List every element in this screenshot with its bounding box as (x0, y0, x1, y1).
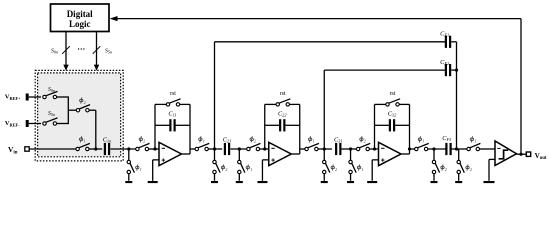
svg-text:2: 2 (470, 167, 472, 172)
node B2 (349, 147, 352, 150)
ground (367, 181, 377, 183)
wire U1 output (181, 153, 190, 155)
capacitor CF1 (440, 30, 451, 48)
wire CF2 rail (324, 69, 446, 71)
wire to node A1 (208, 148, 222, 150)
node stage1 input (153, 147, 156, 150)
node A2 (323, 147, 326, 150)
control line S0n (51, 32, 70, 71)
switch phi2 shunt at node A2 (323, 149, 338, 181)
node Q (127, 147, 130, 150)
node B3 (455, 147, 458, 150)
wire to comparator input (480, 148, 496, 150)
capacitor C31 (334, 137, 343, 156)
wire to U1 inverting input (149, 148, 160, 150)
switch phi1 (stage 3 output) (415, 136, 429, 151)
node P (94, 147, 97, 150)
op-amp U3 (379, 142, 402, 165)
node stage3 input (373, 147, 376, 150)
op-amp U1 (159, 142, 182, 165)
wire CF2 to vertical (451, 69, 456, 71)
switch phi2 shunt at node B3 (457, 149, 472, 181)
capacitor CF2 (440, 59, 451, 76)
wire CF vertical down to node B3 (456, 42, 458, 149)
switch phi1 (input sampling) (76, 136, 90, 151)
switch phi2 (to opamp U3) (356, 136, 370, 151)
wire comparator output (516, 153, 526, 155)
ground (257, 181, 267, 183)
wire mux tap (68, 109, 76, 111)
svg-text:1: 1 (422, 139, 424, 144)
ground (455, 181, 462, 183)
ground (431, 181, 438, 183)
wire cap to node Q (110, 148, 135, 150)
wire stage3 feedback left (374, 104, 376, 149)
switch phi2 (reference feed) (76, 97, 90, 112)
svg-text:Logic: Logic (69, 19, 91, 29)
capacitor CF3 (442, 135, 452, 155)
node A3 (432, 147, 435, 150)
svg-text:2: 2 (84, 100, 86, 105)
wire to node A2 (318, 148, 332, 150)
wire S5n to mux node (57, 123, 69, 125)
wire U3 output (401, 153, 410, 155)
capacitor C21 (223, 137, 232, 156)
capacitor C32 (stage 3 integration) (375, 111, 410, 132)
terminal VREF- (5, 120, 41, 127)
wire mux join (67, 96, 69, 124)
svg-text:2: 2 (225, 167, 227, 172)
svg-text:2: 2 (143, 139, 145, 144)
switch phi1 shunt at node Q (127, 149, 142, 181)
wire CF3 to node B3 (452, 148, 467, 150)
node A1 (213, 147, 216, 150)
node output (519, 153, 522, 156)
wire CF1 rail (215, 41, 446, 43)
wire U2 output (291, 153, 300, 155)
switch S0n (43, 87, 58, 99)
svg-text:rst: rst (170, 91, 176, 97)
svg-text:Digital: Digital (67, 9, 93, 19)
ground (236, 181, 243, 183)
svg-text:S5n: S5n (105, 48, 112, 54)
capacitor C1n (103, 137, 112, 156)
wire stage2 feedback left (264, 104, 266, 149)
terminal VREF+ (5, 94, 41, 101)
ground (321, 181, 328, 183)
svg-text:1: 1 (361, 167, 363, 172)
op-amp U2 (269, 142, 292, 165)
wire CF1 to vertical (451, 41, 456, 43)
wire comparator + input to ground (489, 158, 495, 160)
wire stage3 feedback right (409, 104, 411, 154)
capacitor C11 (stage 1 integration) (155, 111, 190, 132)
wire U1 + input to ground (153, 159, 159, 161)
switch phi2 shunt at node A1 (213, 149, 228, 181)
svg-text:2: 2 (335, 167, 337, 172)
svg-text:2: 2 (254, 139, 256, 144)
wire feedback from Vout to digital logic (110, 16, 521, 154)
ground (484, 181, 495, 183)
svg-text:2: 2 (364, 139, 366, 144)
wire S0n to mux node (57, 96, 69, 98)
svg-text:1: 1 (474, 139, 476, 144)
node CF2 junction (455, 69, 458, 72)
switch rst (stage 2) (265, 91, 300, 106)
dashed DAC box inner (38, 73, 121, 157)
wire U3 + input to ground (372, 159, 378, 161)
switch phi1 (stage 2 output) (305, 136, 319, 151)
switch phi1 shunt at node B2 (349, 149, 364, 181)
svg-text:1: 1 (250, 167, 252, 172)
switch rst (stage 3) (375, 91, 410, 106)
switch phi1 (to comparator) (467, 136, 481, 151)
digital logic block U5 (51, 4, 110, 32)
node B1 (238, 147, 241, 150)
svg-text:S0n: S0n (48, 87, 55, 93)
comparator U4 (495, 141, 517, 166)
wire stage1 feedback left (154, 104, 156, 149)
svg-text:1: 1 (203, 139, 205, 144)
terminal Vout (526, 152, 547, 161)
wire cap to node B1 (230, 148, 246, 150)
wire to node A3 (428, 148, 446, 150)
svg-text:rst: rst (280, 91, 286, 97)
wire stage1 feedback right (189, 104, 191, 154)
wire stage2 feedback right (299, 104, 301, 154)
wire phi2 switch to node P (89, 109, 96, 111)
ground (347, 181, 354, 183)
switch phi2 shunt at node A3 (432, 149, 447, 181)
svg-text:2: 2 (445, 167, 447, 172)
terminal Vin (8, 145, 76, 155)
dashed DAC box outer (35, 70, 123, 160)
svg-text:1: 1 (312, 139, 314, 144)
ground (125, 181, 132, 183)
switch phi2 (to opamp U2) (247, 136, 261, 151)
wire U2 + input to ground (262, 159, 268, 161)
svg-text:1: 1 (140, 167, 142, 172)
svg-text:S0n: S0n (51, 48, 58, 54)
switch S5n (43, 111, 58, 125)
node stage2 input (263, 147, 266, 150)
svg-text:rst: rst (390, 91, 396, 97)
switch phi1 (stage 1 output) (195, 136, 209, 151)
ground (148, 181, 158, 183)
wire node A1 up to CF1 rail (214, 42, 216, 149)
wire to node P (89, 148, 102, 150)
wire node A2 up to CF2 rail (323, 70, 325, 149)
svg-text:⋯: ⋯ (77, 45, 85, 54)
capacitor C22 (stage 2 integration) (265, 111, 300, 132)
ground (211, 181, 218, 183)
control line S5n (93, 32, 112, 71)
wire cap to node B2 (341, 148, 356, 150)
switch phi2 (to opamp U1) (136, 136, 150, 151)
switch phi1 shunt at node B1 (238, 149, 253, 181)
wire to U3 input (369, 148, 379, 150)
switch rst (stage 1) (155, 91, 190, 106)
svg-text:S5n: S5n (48, 111, 55, 117)
wire to U2 input (260, 148, 270, 150)
svg-text:1: 1 (83, 139, 85, 144)
